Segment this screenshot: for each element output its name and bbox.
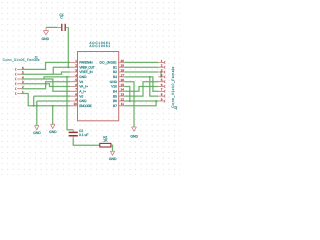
svg-text:ENCODE: ENCODE	[79, 104, 92, 108]
wire IC pin14 to J2 pin6	[124, 87, 158, 92]
junction pin9 rail	[36, 105, 38, 107]
IC left pin numbers	[74, 59, 78, 106]
junction pin18 branch top	[160, 71, 162, 73]
wire C1 left to GND	[46, 26, 58, 28]
wire J1 pin1 to ground rail and IC pin10	[22, 94, 71, 106]
connector J2 sockets and stubs	[158, 61, 165, 102]
junction pin4 branch bottom	[160, 76, 162, 78]
wire rail GND drop	[52, 106, 54, 125]
svg-text:Conn_01x06_Female: Conn_01x06_Female	[3, 58, 40, 62]
wire J1 pin3 to IC pin6	[22, 84, 71, 87]
svg-text:J2: J2	[174, 106, 178, 110]
svg-text:Conn_01x10_Female: Conn_01x10_Female	[171, 67, 175, 108]
svg-text:7: 7	[75, 88, 77, 92]
wire IC pin15 to pin12 row	[124, 87, 130, 102]
svg-text:1K: 1K	[103, 138, 108, 142]
svg-text:B7: B7	[113, 104, 117, 108]
svg-text:VREF_OUT: VREF_OUT	[79, 65, 95, 69]
svg-text:2: 2	[161, 64, 163, 68]
grid background	[0, 0, 180, 175]
wire J1 pin5 run	[22, 72, 71, 74]
svg-text:B3: B3	[113, 75, 117, 79]
svg-text:19: 19	[121, 64, 125, 68]
svg-text:B4: B4	[113, 90, 117, 94]
svg-text:Vd: Vd	[79, 80, 83, 84]
svg-text:16: 16	[121, 78, 125, 82]
wire branch to IC pin2	[53, 67, 70, 74]
svg-text:B6: B6	[113, 99, 117, 103]
svg-text:10: 10	[74, 102, 78, 106]
wire IC pin17 to J2 pin7	[124, 77, 158, 91]
wire IC pin11 elbow to J2 pin9 row	[124, 101, 156, 106]
wire C2 chain from IC pin4 row	[67, 77, 73, 130]
svg-text:VREF_IN: VREF_IN	[79, 70, 93, 74]
svg-text:GND: GND	[79, 75, 87, 79]
svg-text:GND: GND	[42, 37, 50, 41]
svg-text:DO_(MSB): DO_(MSB)	[100, 61, 117, 65]
svg-text:B5: B5	[113, 94, 117, 98]
wire IC pin8 drop to rail	[34, 96, 71, 106]
svg-text:9: 9	[75, 97, 77, 101]
wire IC pin13 to J2 pin5	[124, 82, 158, 96]
wire branch to IC pin4	[44, 77, 70, 79]
svg-text:15: 15	[121, 83, 125, 87]
wire IC pin20 to J2 pin1	[124, 61, 158, 63]
svg-text:8: 8	[75, 93, 77, 97]
svg-text:17: 17	[121, 73, 125, 77]
svg-text:V20: V20	[111, 85, 117, 89]
svg-text:B1: B1	[113, 65, 117, 69]
svg-text:14: 14	[121, 88, 125, 92]
svg-text:11: 11	[121, 102, 124, 106]
wire IC pin16 to GND	[124, 82, 134, 127]
svg-text:3: 3	[161, 68, 163, 72]
ground G2	[35, 126, 39, 130]
svg-text:6: 6	[161, 83, 163, 87]
svg-text:6: 6	[75, 83, 77, 87]
svg-text:Vd: Vd	[79, 94, 83, 98]
wire C2 to R1	[73, 138, 100, 145]
IC U1 body	[78, 52, 119, 121]
ground G3	[51, 124, 55, 128]
svg-text:VA_I+: VA_I+	[79, 85, 88, 89]
wire J1 pin2 to IC pin5	[22, 82, 71, 89]
wire J1 pin4 to IC pin7	[22, 79, 71, 91]
IC left pin stubs	[70, 62, 77, 105]
svg-text:4: 4	[161, 73, 163, 77]
wire C1 right down to pin2 row	[67, 27, 69, 67]
svg-text:1: 1	[75, 59, 77, 63]
wire IC pin12 to J2 pin9	[124, 100, 158, 102]
junction C2 tap	[66, 76, 68, 78]
wire R1 to GND	[111, 145, 113, 151]
svg-text:GND: GND	[109, 157, 117, 161]
ground G4	[132, 127, 137, 131]
svg-text:1: 1	[161, 59, 163, 63]
connector J1 pin numbers	[22, 66, 24, 94]
svg-text:20: 20	[121, 59, 125, 63]
junction pin17 branch	[149, 76, 151, 78]
svg-text:4: 4	[75, 73, 77, 77]
wire IC pin19 to J2 pin2	[124, 66, 158, 68]
svg-text:8: 8	[161, 93, 163, 97]
wire branch to J2 pin8	[150, 77, 159, 96]
junction C1/pin2	[67, 66, 69, 68]
svg-text:9: 9	[161, 97, 163, 101]
svg-text:GND: GND	[130, 135, 138, 139]
svg-text:0.1 uF: 0.1 uF	[79, 133, 89, 137]
svg-text:B2: B2	[113, 70, 117, 74]
junction pin11/pin9	[155, 100, 157, 102]
svg-text:3: 3	[75, 68, 77, 72]
svg-text:2: 2	[75, 64, 77, 68]
wire branch to J2 pin4	[160, 72, 162, 77]
svg-text:GND: GND	[79, 99, 87, 103]
wire IC pin9 row and GND drop	[37, 101, 71, 126]
wire J1 pin6 to IC pin1	[22, 62, 71, 69]
ground G1 (top left)	[43, 27, 48, 34]
svg-text:18: 18	[121, 68, 125, 72]
svg-text:7: 7	[161, 88, 163, 92]
svg-text:A_I+: A_I+	[79, 90, 86, 94]
resistor R1	[100, 143, 111, 147]
svg-text:GND: GND	[33, 131, 41, 135]
IC right pin numbers	[121, 59, 125, 106]
svg-text:5: 5	[75, 78, 77, 82]
svg-text:GND: GND	[110, 80, 118, 84]
IC right pin stubs	[119, 62, 125, 105]
svg-text:GND: GND	[49, 130, 57, 134]
svg-text:13: 13	[121, 93, 125, 97]
svg-text:12: 12	[121, 97, 125, 101]
junction pin8 rail	[33, 105, 35, 107]
wire IC pin18 to J2 pin3	[124, 71, 158, 73]
capacitor C2	[69, 130, 78, 139]
junction pin15/pin12	[129, 100, 131, 102]
svg-text:5: 5	[161, 78, 163, 82]
junction rail drop	[52, 105, 54, 107]
connector J1 sockets and stubs	[15, 68, 21, 94]
IC right pin names	[100, 61, 118, 108]
connector J2 pin numbers	[161, 59, 163, 102]
IC left pin names	[79, 61, 95, 108]
ground G5	[110, 151, 114, 155]
svg-text:PWRDWN: PWRDWN	[79, 61, 93, 65]
svg-text:ADC10061: ADC10061	[89, 44, 110, 48]
capacitor C1	[58, 24, 69, 31]
